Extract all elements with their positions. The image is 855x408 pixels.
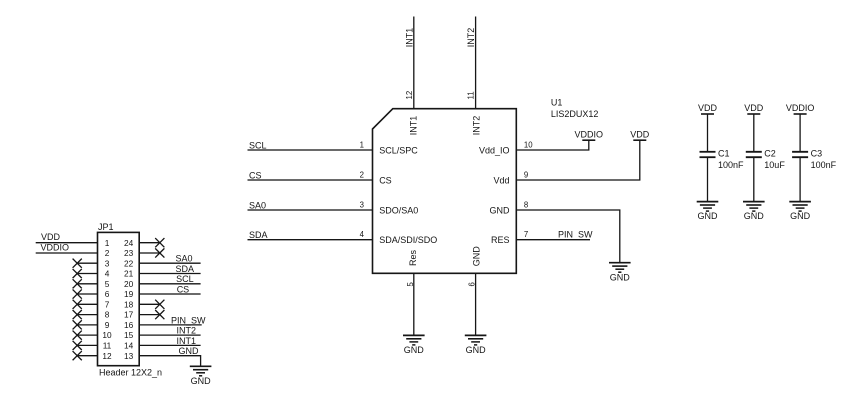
svg-text:SCL/SPC: SCL/SPC [379,145,418,155]
svg-text:20: 20 [124,279,134,289]
no-connect X JP1 pin 4 [73,269,82,278]
svg-text:CS: CS [177,284,190,294]
svg-text:100nF: 100nF [718,160,744,170]
svg-text:11: 11 [103,341,112,351]
svg-text:SA0: SA0 [249,200,266,210]
wire SA0 from JP1 pin 22 [139,262,200,264]
svg-text:8: 8 [524,201,528,210]
svg-text:6: 6 [105,289,110,299]
no-connect X JP1 pin 10 [73,331,82,340]
wire VDD rail to C2 top [753,114,755,152]
no-connect X JP1 pin 6 [73,289,82,298]
connector JP1 [98,222,163,377]
wire stub JP1 pin 9 [77,324,97,326]
svg-text:10uF: 10uF [764,160,785,170]
svg-text:GND: GND [490,205,511,215]
svg-text:VDDIO: VDDIO [575,129,604,139]
svg-text:CS: CS [379,175,392,185]
wire stub JP1 pin 4 [77,273,97,275]
no-connect X JP1 pin 11 [73,341,82,350]
IC U1 LIS2DUX12 outline [373,109,517,274]
wire VDDIO rail to C3 top [799,114,801,152]
svg-text:GND: GND [179,346,200,356]
power symbol VDD at U1 pin 9 [630,129,650,140]
svg-text:CS: CS [249,170,262,180]
ground at C3 [789,202,811,222]
wire stub JP1 pin 8 [77,314,97,316]
no-connect X JP1 pin 17 [155,310,164,319]
wire SCL to U1 pin 1 [248,149,373,151]
svg-text:GND: GND [698,211,719,221]
svg-text:10: 10 [524,141,533,150]
svg-text:23: 23 [124,248,134,258]
wire VDD rail to C1 top [707,114,709,152]
no-connect X JP1 pin 8 [73,310,82,319]
ground at C1 [697,202,719,222]
wire stub JP1 pin 23 [139,252,160,254]
svg-text:SCL: SCL [249,140,267,150]
no-connect X JP1 pin 18 [155,300,164,309]
svg-text:5: 5 [105,279,110,289]
svg-text:11: 11 [467,91,476,99]
svg-text:C1: C1 [718,148,730,158]
svg-text:9: 9 [105,320,110,330]
wire C2 bottom to ground [753,157,755,201]
svg-text:100nF: 100nF [811,160,837,170]
wire stub JP1 pin 5 [77,283,97,285]
svg-text:SDO/SA0: SDO/SA0 [379,205,418,215]
no-connect X JP1 pin 5 [73,279,82,288]
wire stub JP1 pin 3 [77,262,97,264]
svg-text:16: 16 [124,320,134,330]
svg-text:19: 19 [124,289,134,299]
no-connect X JP1 pin 9 [73,320,82,329]
svg-text:3: 3 [360,201,364,210]
svg-text:INT2: INT2 [471,116,481,136]
wire stub JP1 pin 11 [77,344,97,346]
svg-text:INT1: INT1 [409,116,419,136]
svg-text:Vdd: Vdd [493,175,509,185]
svg-text:GND: GND [191,376,212,386]
svg-text:Header 12X2_n: Header 12X2_n [99,367,162,377]
wire C3 bottom to ground [799,157,801,201]
ground at U1 pin 5 [403,335,425,355]
wire stub JP1 pin 7 [77,303,97,305]
svg-text:12: 12 [102,351,112,361]
wire stub JP1 pin 10 [77,334,97,336]
svg-text:SDA/SDI/SDO: SDA/SDI/SDO [379,235,437,245]
svg-text:8: 8 [105,310,110,320]
wire U1 pin 9 to VDD rail [516,140,640,180]
ground at U1 pin 6 [465,335,487,355]
svg-text:JP1: JP1 [98,222,114,232]
svg-text:VDD: VDD [630,129,650,139]
svg-text:INT2: INT2 [466,28,476,48]
wire CS to U1 pin 2 [248,179,373,181]
svg-text:1: 1 [360,141,364,150]
svg-text:17: 17 [124,310,134,320]
svg-text:Vdd_IO: Vdd_IO [479,145,510,155]
svg-text:VDDIO: VDDIO [41,242,70,252]
wire U1 pin 6 to ground [475,273,477,335]
power symbol VDD at C2 [744,103,764,114]
no-connect X JP1 pin 23 [155,248,164,257]
wire INT1 to U1 pin 12 [413,17,415,109]
svg-text:C2: C2 [764,148,776,158]
svg-text:GND: GND [790,211,811,221]
ground at C2 [743,202,765,222]
no-connect X JP1 pin 24 [155,238,164,247]
wire C1 bottom to ground [707,157,709,201]
svg-text:VDD: VDD [744,103,764,113]
svg-text:2: 2 [360,171,364,180]
wire SA0 to U1 pin 3 [248,209,373,211]
svg-text:24: 24 [124,238,134,248]
svg-text:SDA: SDA [249,230,268,240]
svg-text:PIN_SW: PIN_SW [171,315,206,325]
svg-text:INT2: INT2 [177,326,197,336]
wire PIN_SW from JP1 pin 16 [139,324,202,326]
svg-text:12: 12 [405,91,414,100]
svg-text:5: 5 [406,282,415,287]
wire U1 pin 5 to ground [413,273,415,335]
no-connect X JP1 pin 3 [73,259,82,268]
svg-text:SDA: SDA [176,264,195,274]
capacitor C1 [700,152,716,157]
no-connect X JP1 pin 12 [73,351,82,360]
power symbol VDD at C1 [698,103,718,114]
power symbol VDDIO at U1 pin 10 [575,129,604,140]
svg-text:13: 13 [124,351,134,361]
no-connect X JP1 pin 7 [73,300,82,309]
wire SDA from JP1 pin 21 [139,273,200,275]
wire SCL from JP1 pin 20 [139,283,200,285]
svg-text:GND: GND [744,211,765,221]
svg-text:14: 14 [124,341,134,351]
svg-text:GND: GND [610,272,631,282]
power symbol VDDIO at C3 [786,103,815,114]
svg-text:21: 21 [124,269,134,279]
svg-text:4: 4 [360,230,365,239]
svg-text:Res: Res [408,249,418,266]
svg-text:15: 15 [124,330,134,340]
wire INT2 from JP1 pin 15 [139,334,200,336]
svg-text:PIN_SW: PIN_SW [558,229,593,239]
wire stub JP1 pin 18 [139,303,160,305]
svg-text:7: 7 [524,230,528,239]
wire stub JP1 pin 24 [139,242,160,244]
wire SDA to U1 pin 4 [248,239,373,241]
svg-text:2: 2 [105,248,110,258]
svg-text:GND: GND [466,345,487,355]
svg-text:SA0: SA0 [176,254,193,264]
wire stub JP1 pin 17 [139,314,160,316]
svg-text:SCL: SCL [176,274,194,284]
svg-text:GND: GND [471,246,481,267]
svg-text:VDD: VDD [698,103,718,113]
svg-text:22: 22 [124,258,134,268]
wire PIN_SW from U1 pin 7 [516,239,590,241]
svg-text:LIS2DUX12: LIS2DUX12 [551,109,599,119]
svg-text:U1: U1 [551,97,563,107]
wire U1 pin 10 to VDDIO rail [516,140,589,150]
svg-text:1: 1 [105,238,110,248]
svg-text:18: 18 [124,299,134,309]
wire INT2 to U1 pin 11 [475,17,477,109]
wire CS from JP1 pin 19 [139,293,200,295]
svg-text:RES: RES [491,235,510,245]
svg-text:INT1: INT1 [404,28,414,48]
ground at JP1 pin 13 [190,366,212,386]
capacitor C3 [792,152,808,157]
wire INT1 from JP1 pin 14 [139,344,200,346]
capacitor C2 [746,152,762,157]
svg-text:4: 4 [105,269,110,279]
wire VDDIO to JP1 pin 2 [36,252,98,254]
svg-text:INT1: INT1 [177,336,197,346]
svg-text:7: 7 [105,299,110,309]
wire stub JP1 pin 12 [77,355,97,357]
ground at U1 pin 8 [609,263,631,283]
svg-text:10: 10 [102,330,112,340]
svg-text:C3: C3 [811,148,823,158]
wire stub JP1 pin 6 [77,293,97,295]
wire GND from JP1 pin 13 [139,356,200,367]
svg-text:VDDIO: VDDIO [786,103,815,113]
svg-text:VDD: VDD [41,232,61,242]
wire U1 pin 8 to ground [516,210,620,263]
wire VDD to JP1 pin 1 [36,242,98,244]
svg-text:6: 6 [468,282,477,286]
svg-text:GND: GND [404,345,425,355]
svg-text:3: 3 [105,258,110,268]
svg-text:9: 9 [524,171,528,180]
